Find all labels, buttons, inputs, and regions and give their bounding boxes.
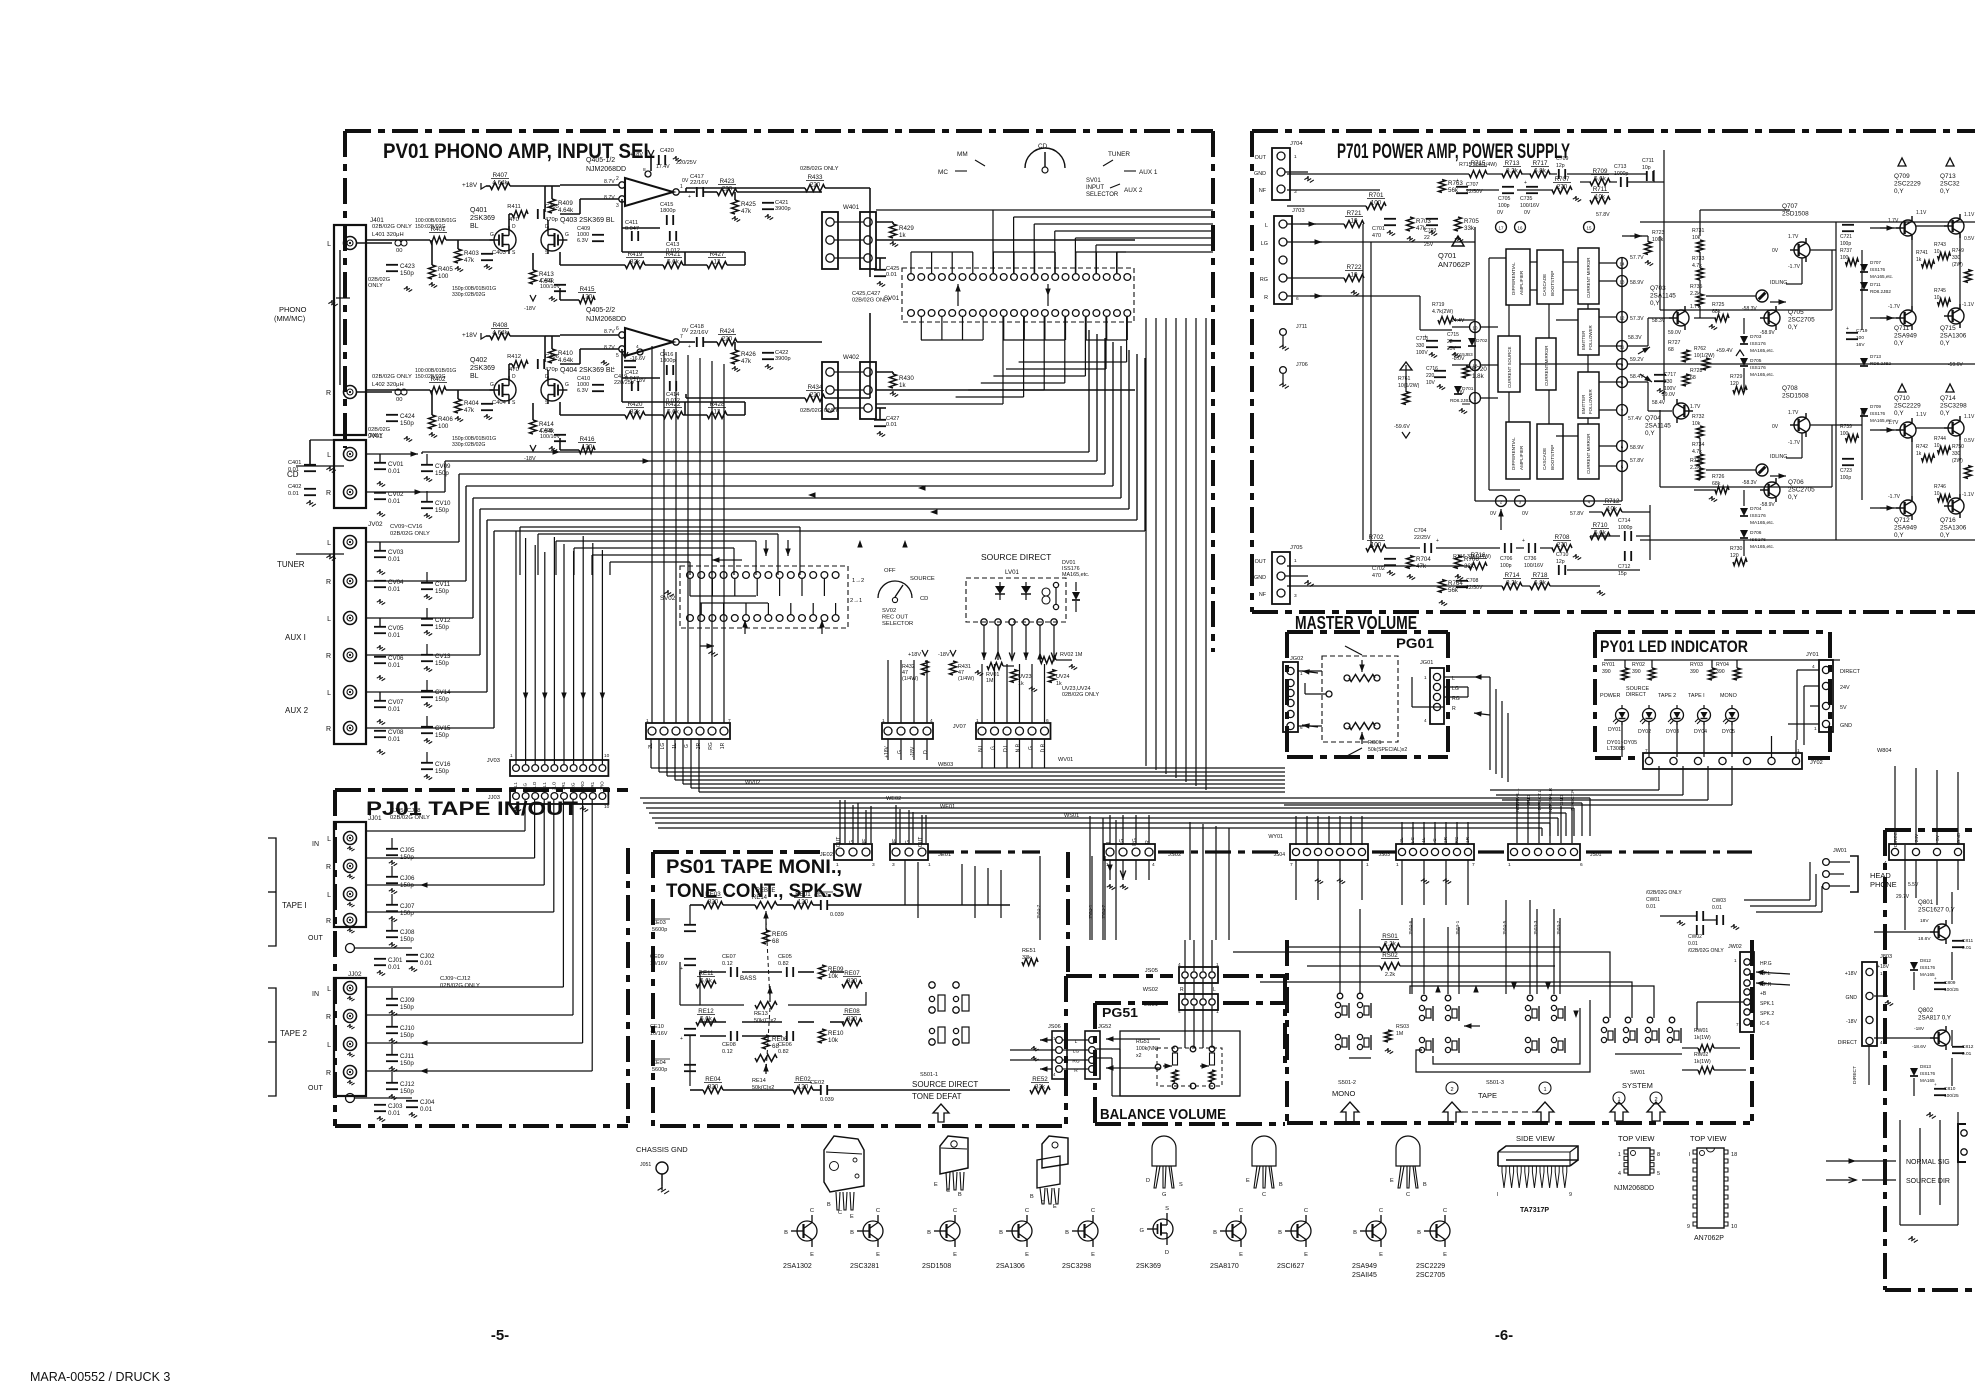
- resistor R402 input: [430, 387, 446, 394]
- svg-text:57.8V: 57.8V: [1630, 458, 1644, 464]
- svg-text:OUT: OUT: [1255, 155, 1267, 161]
- jack JJ01 R-out: [344, 914, 357, 927]
- resistor R715: [1469, 171, 1487, 178]
- svg-text:Q402: Q402: [470, 357, 487, 364]
- svg-text:RE07: RE07: [844, 970, 860, 977]
- svg-text:G: G: [991, 746, 997, 750]
- svg-text:PG51: PG51: [1102, 1005, 1138, 1020]
- package NJM2068DD DIP8: [1628, 1148, 1650, 1175]
- svg-text:00: 00: [396, 397, 402, 403]
- capacitor CJ10: [386, 1026, 398, 1028]
- svg-text:AUX I: AUX I: [285, 633, 306, 642]
- svg-text:R406: R406: [438, 416, 453, 423]
- svg-text:BL: BL: [470, 223, 479, 230]
- svg-text:2SK369: 2SK369: [470, 365, 495, 372]
- wire bus line 6: [480, 508, 1129, 510]
- svg-text:0.01: 0.01: [388, 736, 401, 743]
- svg-text:NJM2068DD: NJM2068DD: [586, 316, 626, 323]
- resistor RE08: [842, 1019, 862, 1026]
- arrows SV02 feeds: [808, 492, 816, 497]
- capacitor C704: [1424, 543, 1426, 553]
- wire JW02 arrows: [1756, 972, 1790, 974]
- svg-text:CJ06: CJ06: [400, 875, 415, 882]
- wire CD R feed: [365, 491, 400, 493]
- svg-text:RG: RG: [571, 782, 576, 789]
- svg-text:MA165,etc.: MA165,etc.: [1750, 372, 1774, 378]
- svg-text:R: R: [326, 864, 331, 871]
- svg-text:AN7062P: AN7062P: [1694, 1235, 1724, 1242]
- svg-text:TAPE I: TAPE I: [1688, 693, 1705, 699]
- wire JS04 JS03 drops: [1295, 860, 1297, 900]
- capacitor C401: [304, 464, 316, 466]
- svg-text:470: 470: [509, 217, 519, 223]
- capacitor C409: [592, 234, 604, 236]
- transistor Q710 2SC2229: [1898, 384, 1906, 392]
- svg-text:R: R: [326, 726, 331, 733]
- IC pin 3: [1515, 496, 1526, 507]
- svg-text:C: C: [1379, 1208, 1383, 1214]
- jack AUX1 L: [344, 612, 357, 625]
- capacitor C411: [631, 231, 633, 241]
- capacitor C714: [1624, 531, 1626, 541]
- svg-text:CJ02: CJ02: [420, 953, 435, 960]
- svg-text:JJ01: JJ01: [368, 815, 382, 822]
- capacitor C413: [669, 231, 671, 241]
- svg-text:4: 4: [1424, 718, 1427, 723]
- resistor RE03: [703, 902, 723, 909]
- svg-text:C: C: [946, 1188, 950, 1194]
- module box speaker switch border: [1285, 940, 1289, 1123]
- svg-text:+: +: [612, 366, 615, 372]
- IC pin 15: [1584, 222, 1595, 233]
- svg-text:R: R: [1180, 987, 1184, 993]
- package TO-92 2SK369: [1152, 1136, 1176, 1166]
- svg-text:+18V: +18V: [462, 182, 478, 189]
- svg-text:DIRECT: DIRECT: [1893, 829, 1899, 847]
- svg-text:C704: C704: [1414, 528, 1427, 534]
- wire right descent: [1894, 766, 1896, 845]
- svg-text:C812: C812: [1962, 1044, 1974, 1050]
- svg-text:3: 3: [872, 862, 875, 868]
- svg-text:R: R: [1145, 840, 1151, 844]
- svg-text:Q711: Q711: [1894, 325, 1910, 332]
- svg-text:57.4V: 57.4V: [1628, 416, 1642, 422]
- IC pin 17: [1496, 222, 1507, 233]
- wire JY01 feeds: [1797, 669, 1819, 671]
- capacitor C711: [1646, 171, 1648, 181]
- svg-text:-1.7V: -1.7V: [1888, 494, 1901, 500]
- svg-text:UV24: UV24: [1056, 674, 1070, 680]
- resistor R425: [732, 200, 739, 214]
- svg-text:CJ10: CJ10: [400, 1025, 415, 1032]
- svg-text:E: E: [810, 1252, 814, 1258]
- wire ps01 risers: [904, 860, 906, 905]
- svg-text:RG: RG: [1260, 277, 1268, 283]
- svg-text:PHONO: PHONO: [279, 305, 307, 314]
- svg-text:JG02: JG02: [1290, 656, 1303, 662]
- svg-text:AN7062P: AN7062P: [1438, 260, 1470, 269]
- capacitor C410: [592, 384, 604, 386]
- svg-text:SOURCE DIRECT: SOURCE DIRECT: [981, 552, 1051, 562]
- svg-text:220: 220: [1426, 373, 1435, 379]
- svg-text:R425: R425: [741, 201, 756, 208]
- svg-text:IDLING: IDLING: [1770, 454, 1787, 460]
- selector arrows: [957, 284, 959, 296]
- svg-text:JW02: JW02: [1728, 944, 1742, 950]
- selector comb wiring top: [910, 252, 912, 274]
- wire W402 right lines: [876, 403, 943, 405]
- svg-text:1.7V: 1.7V: [1788, 410, 1799, 416]
- svg-text:GND: GND: [1845, 995, 1857, 1001]
- svg-text:0.01: 0.01: [886, 272, 897, 278]
- svg-text:CHASSIS GND: CHASSIS GND: [636, 1145, 688, 1154]
- svg-text:RG: RG: [708, 742, 714, 750]
- svg-text:WY01: WY01: [1268, 834, 1283, 840]
- package TA7317P SIL9: [1498, 1146, 1578, 1160]
- svg-text:0.01: 0.01: [388, 662, 401, 669]
- svg-text:B: B: [1423, 1182, 1427, 1188]
- wire bus line 1: [422, 451, 1089, 453]
- resistor R428: [707, 412, 727, 419]
- resistor R422: [663, 412, 683, 419]
- svg-text:6.8k: 6.8k: [1534, 168, 1547, 175]
- svg-text:D704: D704: [1750, 506, 1762, 512]
- svg-text:MA165: MA165: [1920, 972, 1935, 977]
- transistor symbol 2SC3281: [863, 1221, 883, 1241]
- svg-text:C401: C401: [288, 460, 301, 466]
- wire feedback net: [622, 377, 660, 379]
- svg-text:58.3V: 58.3V: [1652, 318, 1666, 324]
- svg-text:Q701: Q701: [1438, 251, 1456, 260]
- svg-text:RE51: RE51: [1022, 948, 1036, 954]
- op-amp Q405-1/2 NJM2068DD: [625, 178, 673, 206]
- module box headphone amp border: [1885, 828, 1975, 832]
- svg-text:C: C: [1091, 1208, 1095, 1214]
- svg-text:SIDE VIEW: SIDE VIEW: [1516, 1134, 1556, 1143]
- svg-text:R706: R706: [1464, 556, 1479, 563]
- svg-text:12p: 12p: [1556, 163, 1565, 169]
- LED DY03: [1671, 709, 1684, 722]
- svg-text:33k: 33k: [1035, 1084, 1046, 1091]
- svg-text:R731: R731: [1692, 228, 1705, 234]
- svg-text:CURRENT MIRROR: CURRENT MIRROR: [1586, 258, 1591, 298]
- svg-text:D: D: [1146, 1178, 1150, 1184]
- svg-text:-1.1V: -1.1V: [1962, 302, 1975, 308]
- svg-text:150p: 150p: [400, 936, 414, 943]
- svg-text:0.01: 0.01: [1962, 945, 1972, 951]
- svg-text:10: 10: [1934, 295, 1940, 301]
- svg-text:TAPE: TAPE: [1478, 1091, 1497, 1100]
- svg-text:CV04: CV04: [388, 579, 404, 586]
- svg-text:2SA8170: 2SA8170: [1210, 1263, 1239, 1270]
- svg-text:Q703: Q703: [1650, 285, 1666, 292]
- svg-text:R714: R714: [1505, 572, 1520, 579]
- svg-text:6: 6: [1046, 718, 1049, 724]
- svg-text:RY03: RY03: [1690, 662, 1703, 668]
- svg-text:R715 33k(1/4W): R715 33k(1/4W): [1459, 162, 1497, 168]
- svg-text:120: 120: [582, 444, 593, 451]
- svg-text:2SD1508: 2SD1508: [922, 1263, 951, 1270]
- connector JJ01 tape1 jacks: [334, 822, 366, 927]
- svg-text:RD8.2JB2: RD8.2JB2: [1450, 398, 1471, 403]
- svg-text:B: B: [1278, 1230, 1282, 1236]
- resistor R409: [549, 199, 556, 213]
- svg-text:R744: R744: [1934, 436, 1946, 442]
- svg-text:CURRENT MIRROR: CURRENT MIRROR: [1544, 346, 1549, 386]
- capacitor CE02: [820, 1085, 822, 1095]
- svg-text:E: E: [1379, 1252, 1383, 1258]
- svg-text:330: 330: [1952, 255, 1961, 261]
- svg-text:100/25: 100/25: [1944, 987, 1959, 993]
- svg-text:R: R: [326, 653, 331, 660]
- svg-text:-58.3V: -58.3V: [1742, 480, 1757, 486]
- svg-text:R735: R735: [1690, 284, 1703, 290]
- resistor RE05: [763, 930, 770, 944]
- pot RG01 lower: [1349, 723, 1375, 730]
- svg-text:RE06: RE06: [772, 1036, 788, 1043]
- svg-text:JV03: JV03: [487, 758, 500, 764]
- svg-text:0.01: 0.01: [388, 556, 401, 563]
- svg-text:0,Y: 0,Y: [1788, 324, 1798, 331]
- svg-text:1: 1: [1216, 1009, 1219, 1015]
- svg-text:CASCADE: CASCADE: [1542, 274, 1547, 296]
- pin JJ02 gnd: [346, 1094, 355, 1103]
- svg-text:GND: GND: [1956, 832, 1962, 843]
- svg-text:47k: 47k: [464, 407, 475, 414]
- svg-text:S501-3: S501-3: [1486, 1080, 1504, 1086]
- svg-text:B: B: [784, 1230, 788, 1236]
- svg-text:0,Y: 0,Y: [1788, 494, 1798, 501]
- module box PG51 outer border: [1064, 976, 1068, 1124]
- svg-text:0.01: 0.01: [388, 964, 401, 971]
- svg-text:J504-5: J504-5: [1502, 920, 1508, 935]
- svg-text:330p:02B/02G: 330p:02B/02G: [452, 442, 485, 448]
- svg-text:10p: 10p: [1642, 165, 1651, 171]
- jack CD R: [344, 486, 357, 499]
- svg-text:Q708: Q708: [1782, 385, 1798, 392]
- svg-text:JE01: JE01: [938, 852, 951, 858]
- svg-text:1: 1: [510, 804, 513, 810]
- svg-text:4.64k: 4.64k: [558, 207, 574, 214]
- svg-text:JG01: JG01: [1420, 660, 1433, 666]
- svg-text:100p: 100p: [1498, 203, 1510, 209]
- svg-text:02B/02G ONLY: 02B/02G ONLY: [390, 531, 430, 537]
- jack AUX1 R: [344, 649, 357, 662]
- svg-text:+18V: +18V: [630, 152, 643, 158]
- svg-text:1: 1: [1366, 862, 1369, 868]
- resistor R412 feedback: [512, 361, 528, 368]
- arrow SYSTEM 2: [1647, 1102, 1665, 1121]
- svg-text:470: 470: [1372, 233, 1381, 239]
- svg-text:150p: 150p: [435, 732, 449, 739]
- svg-text:150p: 150p: [435, 507, 449, 514]
- svg-text:5: 5: [1657, 1171, 1660, 1177]
- svg-text:D: D: [1165, 1250, 1169, 1256]
- svg-text:RE02: RE02: [795, 1076, 811, 1083]
- svg-text:DY05: DY05: [1722, 729, 1735, 735]
- jack JJ01 L-out: [344, 888, 357, 901]
- svg-text:0.5V: 0.5V: [1964, 236, 1975, 242]
- svg-text:2SA1145: 2SA1145: [1650, 293, 1676, 300]
- resistor R420: [625, 412, 645, 419]
- svg-text:R719: R719: [1432, 302, 1445, 308]
- svg-text:RG: RG: [1132, 838, 1138, 846]
- svg-text:R749: R749: [1952, 248, 1964, 254]
- svg-text:270: 270: [1557, 542, 1568, 549]
- svg-text:100p: 100p: [1500, 563, 1512, 569]
- svg-text:0V: 0V: [1524, 210, 1531, 216]
- svg-text:DIRECT: DIRECT: [1852, 1066, 1858, 1084]
- svg-text:CJ01: CJ01: [388, 957, 403, 964]
- package TO-92 2SA8170: [1252, 1136, 1276, 1166]
- connector JV02 tuner aux jacks: [334, 528, 366, 744]
- svg-text:C714: C714: [1618, 518, 1631, 524]
- capacitor CJ01: [374, 958, 386, 960]
- wire TUNER L feed: [365, 541, 459, 543]
- svg-text:+: +: [688, 344, 691, 350]
- svg-text:R730: R730: [1730, 546, 1743, 552]
- svg-text:2R1: 2R1: [590, 781, 595, 790]
- svg-text:2SA1306: 2SA1306: [1940, 333, 1967, 340]
- IC block current mirror mid: [1536, 338, 1556, 390]
- capacitor CE08: [730, 1031, 732, 1041]
- svg-text:5.5V: 5.5V: [1908, 882, 1919, 888]
- svg-text:6: 6: [1296, 296, 1299, 302]
- svg-text:CJ09: CJ09: [400, 997, 415, 1004]
- capacitor C723: [1842, 458, 1854, 460]
- svg-text:4.7k(2W): 4.7k(2W): [1432, 309, 1453, 315]
- svg-text:WB03: WB03: [938, 762, 953, 768]
- svg-text:BOOTSTRP: BOOTSTRP: [1550, 271, 1555, 296]
- svg-text:MA165: MA165: [1920, 1078, 1935, 1083]
- svg-text:CJ04: CJ04: [420, 1099, 435, 1106]
- svg-text:IC-6: IC-6: [1760, 1021, 1770, 1027]
- svg-text:1.7V: 1.7V: [1888, 218, 1899, 224]
- svg-text:3900p: 3900p: [775, 206, 791, 212]
- svg-text:0.01: 0.01: [288, 491, 299, 497]
- svg-text:100: 100: [1371, 200, 1382, 207]
- capacitor C713: [1620, 177, 1622, 187]
- jack TUNER R: [344, 575, 357, 588]
- svg-text:6.3V: 6.3V: [577, 388, 589, 394]
- resistor RE12: [696, 1019, 716, 1026]
- wire JY02 bus down: [1658, 766, 1660, 790]
- svg-text:LG: LG: [1119, 839, 1125, 846]
- capacitor C418: [679, 341, 695, 343]
- balance pot solid box: [1120, 1031, 1240, 1096]
- svg-text:R: R: [326, 1014, 331, 1021]
- resistor R722: [1344, 275, 1364, 282]
- wire tone bottom: [700, 1021, 726, 1023]
- svg-text:0V: 0V: [1497, 210, 1504, 216]
- svg-text:10/16V: 10/16V: [650, 1031, 668, 1037]
- svg-text:2SA1145: 2SA1145: [1645, 423, 1671, 430]
- svg-text:1: 1: [1294, 154, 1297, 160]
- svg-text:2SK369: 2SK369: [470, 215, 495, 222]
- svg-text:R412: R412: [507, 354, 521, 360]
- svg-text:RE05: RE05: [772, 931, 788, 938]
- svg-text:7: 7: [1736, 1022, 1739, 1027]
- IC block differential amplifier 2: [1506, 422, 1530, 479]
- capacitor C717: [1654, 374, 1666, 376]
- capacitor CW02: [1696, 925, 1698, 935]
- IC pin 9: [1617, 359, 1628, 370]
- svg-text:0.01: 0.01: [420, 960, 433, 967]
- svg-text:C: C: [1406, 1192, 1410, 1198]
- svg-text:100: 100: [438, 273, 449, 280]
- svg-text:RW01: RW01: [1694, 1028, 1708, 1034]
- diodes D704 D706: [1740, 508, 1748, 516]
- svg-text:150p: 150p: [435, 624, 449, 631]
- svg-text:C707: C707: [1466, 182, 1479, 188]
- resistor R720: [1463, 366, 1470, 378]
- svg-text:R433: R433: [808, 174, 823, 181]
- power op-amp supply: [622, 352, 628, 358]
- svg-text:-1.7V: -1.7V: [1788, 264, 1801, 270]
- svg-text:15p: 15p: [1618, 571, 1627, 577]
- IC block rails: [1474, 227, 1476, 501]
- jack TUNER L: [344, 536, 357, 549]
- svg-text:1k: 1k: [1916, 257, 1922, 263]
- ground phono: [331, 300, 333, 304]
- wire JS05 to JG51: [1184, 940, 1186, 971]
- capacitor C706: [1504, 543, 1506, 553]
- svg-text:1: 1: [1880, 971, 1883, 976]
- resistor RE11: [696, 981, 716, 988]
- svg-text:RE12: RE12: [698, 1008, 714, 1015]
- IC pin 16: [1515, 222, 1526, 233]
- IC block emitter follower 1: [1578, 309, 1599, 355]
- pin JJ01 gnd: [346, 944, 355, 953]
- capacitor CV11: [421, 582, 433, 584]
- svg-text:24V: 24V: [1914, 833, 1920, 842]
- svg-text:OFF: OFF: [884, 568, 896, 574]
- svg-text:TA7317P: TA7317P: [1520, 1207, 1549, 1214]
- svg-text:RY01: RY01: [1602, 662, 1615, 668]
- svg-text:2: 2: [616, 176, 619, 182]
- svg-text:J504-6: J504-6: [1408, 920, 1414, 935]
- capacitor C404 shunt: [481, 403, 493, 405]
- svg-text:D713: D713: [1870, 354, 1881, 359]
- capacitor CV14: [421, 690, 433, 692]
- capacitor CJ02: [406, 954, 418, 956]
- wire bus line 2: [445, 460, 1097, 462]
- svg-text:C: C: [810, 1208, 814, 1214]
- svg-text:12: 12: [714, 409, 721, 416]
- output stage rails: [1640, 221, 1975, 223]
- svg-text:R723: R723: [1652, 230, 1665, 236]
- capacitor CE05: [786, 967, 788, 977]
- svg-text:220: 220: [810, 392, 821, 399]
- capacitor CJ04: [406, 1100, 418, 1102]
- pot center tap: [1326, 691, 1332, 697]
- svg-text:02B/02G ONLY: 02B/02G ONLY: [372, 374, 412, 380]
- svg-text:AMPLIFIER: AMPLIFIER: [1519, 270, 1524, 295]
- svg-text:C716: C716: [1426, 366, 1438, 372]
- svg-text:470p: 470p: [545, 367, 558, 373]
- svg-text:02B/02G ONLY: 02B/02G ONLY: [440, 983, 480, 989]
- ground JJ03: [515, 806, 517, 809]
- svg-text:L: L: [327, 452, 331, 459]
- svg-text:150p: 150p: [400, 1004, 414, 1011]
- svg-text:BALANCE VOLUME: BALANCE VOLUME: [1100, 1106, 1226, 1123]
- svg-text:4.64k: 4.64k: [492, 330, 508, 337]
- svg-text:C423: C423: [400, 263, 415, 270]
- capacitor C710: [1558, 565, 1560, 575]
- resistor R721: [1344, 221, 1364, 228]
- svg-text:+18V: +18V: [1877, 964, 1889, 970]
- svg-text:33k: 33k: [1464, 563, 1475, 570]
